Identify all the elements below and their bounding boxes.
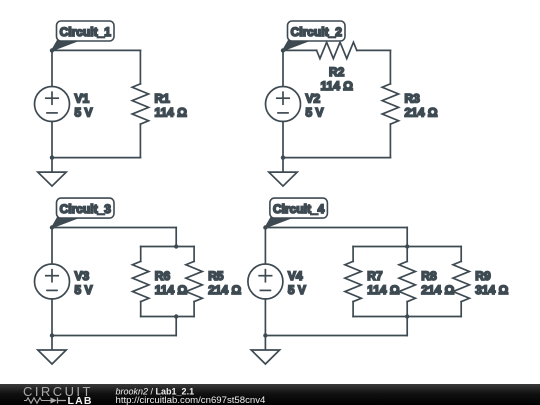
logo diode: [51, 398, 58, 404]
svg-text:R8: R8: [421, 269, 437, 283]
wire: [265, 335, 407, 337]
svg-text:114 Ω: 114 Ω: [155, 106, 188, 120]
svg-text:Circuit_3: Circuit_3: [60, 202, 112, 216]
node bottom-left junction: [281, 155, 285, 159]
svg-text:R9: R9: [475, 269, 491, 283]
svg-text:V4: V4: [288, 269, 303, 283]
wire: [52, 49, 140, 51]
wire: [406, 317, 408, 336]
logo resistor zigzag: [24, 398, 51, 403]
wire: [52, 227, 176, 229]
wire: [52, 157, 140, 159]
svg-text:LAB: LAB: [68, 395, 93, 405]
wire: [139, 124, 141, 158]
voltage source V2: [266, 87, 301, 122]
footer bar: [0, 384, 540, 405]
svg-text:R1: R1: [155, 92, 171, 106]
wire: [52, 335, 176, 337]
wire: [51, 299, 53, 336]
wire bottom bus: [141, 316, 194, 318]
node bottom bus junction: [174, 314, 178, 318]
node bottom-left junction: [263, 333, 267, 337]
svg-text:http://circuitlab.com/cn697st5: http://circuitlab.com/cn697st58cnv4: [116, 395, 267, 405]
wire: [193, 302, 195, 317]
wire: [175, 317, 177, 336]
svg-text:5 V: 5 V: [75, 283, 93, 297]
svg-text:114 Ω: 114 Ω: [155, 283, 188, 297]
ground: [251, 336, 279, 365]
resistor R9: [453, 261, 469, 301]
node bottom-left junction: [50, 155, 54, 159]
wire: [193, 247, 195, 262]
wire: [389, 124, 391, 158]
wire: [140, 247, 142, 262]
svg-text:214 Ω: 214 Ω: [405, 106, 438, 120]
wire: [265, 227, 407, 229]
resistor R1: [132, 84, 148, 124]
svg-text:Circuit_4: Circuit_4: [273, 202, 325, 216]
node top-left junction: [263, 225, 267, 229]
resistor R8: [399, 261, 415, 301]
svg-text:114 Ω: 114 Ω: [321, 79, 354, 93]
svg-text:114 Ω: 114 Ω: [367, 283, 400, 297]
ground: [269, 158, 297, 187]
svg-text:R2: R2: [329, 65, 345, 79]
resistor R2: [317, 42, 357, 58]
wire: [406, 247, 408, 262]
resistor R7: [345, 261, 361, 301]
svg-text:214 Ω: 214 Ω: [421, 283, 454, 297]
node top-left junction: [50, 225, 54, 229]
circuit label Circuit_4: [265, 198, 327, 227]
ground: [38, 336, 66, 365]
svg-text:Circuit_2: Circuit_2: [291, 25, 343, 39]
wire: [264, 299, 266, 336]
svg-text:Circuit_1: Circuit_1: [60, 25, 112, 39]
wire: [406, 228, 408, 247]
wire: [51, 122, 53, 158]
resistor R3: [382, 84, 398, 124]
node bottom-left junction: [50, 333, 54, 337]
wire: [282, 122, 284, 158]
svg-text:R6: R6: [155, 269, 171, 283]
svg-text:5 V: 5 V: [75, 106, 93, 120]
wire: [406, 302, 408, 317]
wire: [175, 228, 177, 247]
wire: [51, 50, 53, 86]
wire: [51, 228, 53, 265]
voltage source V1: [35, 87, 70, 122]
wire: [352, 247, 354, 262]
wire: [282, 50, 284, 86]
svg-text:V2: V2: [306, 92, 321, 106]
resistor R6: [133, 261, 149, 301]
wire: [140, 302, 142, 317]
wire: [283, 49, 317, 51]
node top-left junction: [281, 48, 285, 52]
wire bottom bus: [353, 316, 461, 318]
wire: [139, 50, 141, 84]
wire: [357, 49, 391, 51]
node top bus junction: [174, 244, 178, 248]
wire: [352, 302, 354, 317]
wire: [389, 50, 391, 84]
wire: [460, 302, 462, 317]
circuit label Circuit_2: [283, 21, 345, 50]
svg-text:V1: V1: [75, 92, 90, 106]
circuit label Circuit_3: [52, 198, 114, 227]
svg-text:R3: R3: [405, 92, 421, 106]
wire: [460, 247, 462, 262]
svg-text:R7: R7: [367, 269, 383, 283]
svg-text:V3: V3: [75, 269, 90, 283]
voltage source V4: [248, 264, 283, 299]
node top bus junction: [405, 244, 409, 248]
wire: [264, 228, 266, 265]
ground: [38, 158, 66, 187]
svg-text:R5: R5: [208, 269, 224, 283]
wire top bus: [353, 246, 461, 248]
node bottom bus junction: [405, 314, 409, 318]
circuit label Circuit_1: [52, 21, 114, 50]
svg-text:5 V: 5 V: [306, 106, 324, 120]
svg-text:5 V: 5 V: [288, 283, 306, 297]
svg-text:214 Ω: 214 Ω: [208, 283, 241, 297]
voltage source V3: [35, 264, 70, 299]
node top-left junction: [50, 48, 54, 52]
wire: [283, 157, 390, 159]
resistor R5: [186, 261, 202, 301]
wire top bus: [141, 246, 194, 248]
svg-text:314 Ω: 314 Ω: [475, 283, 508, 297]
